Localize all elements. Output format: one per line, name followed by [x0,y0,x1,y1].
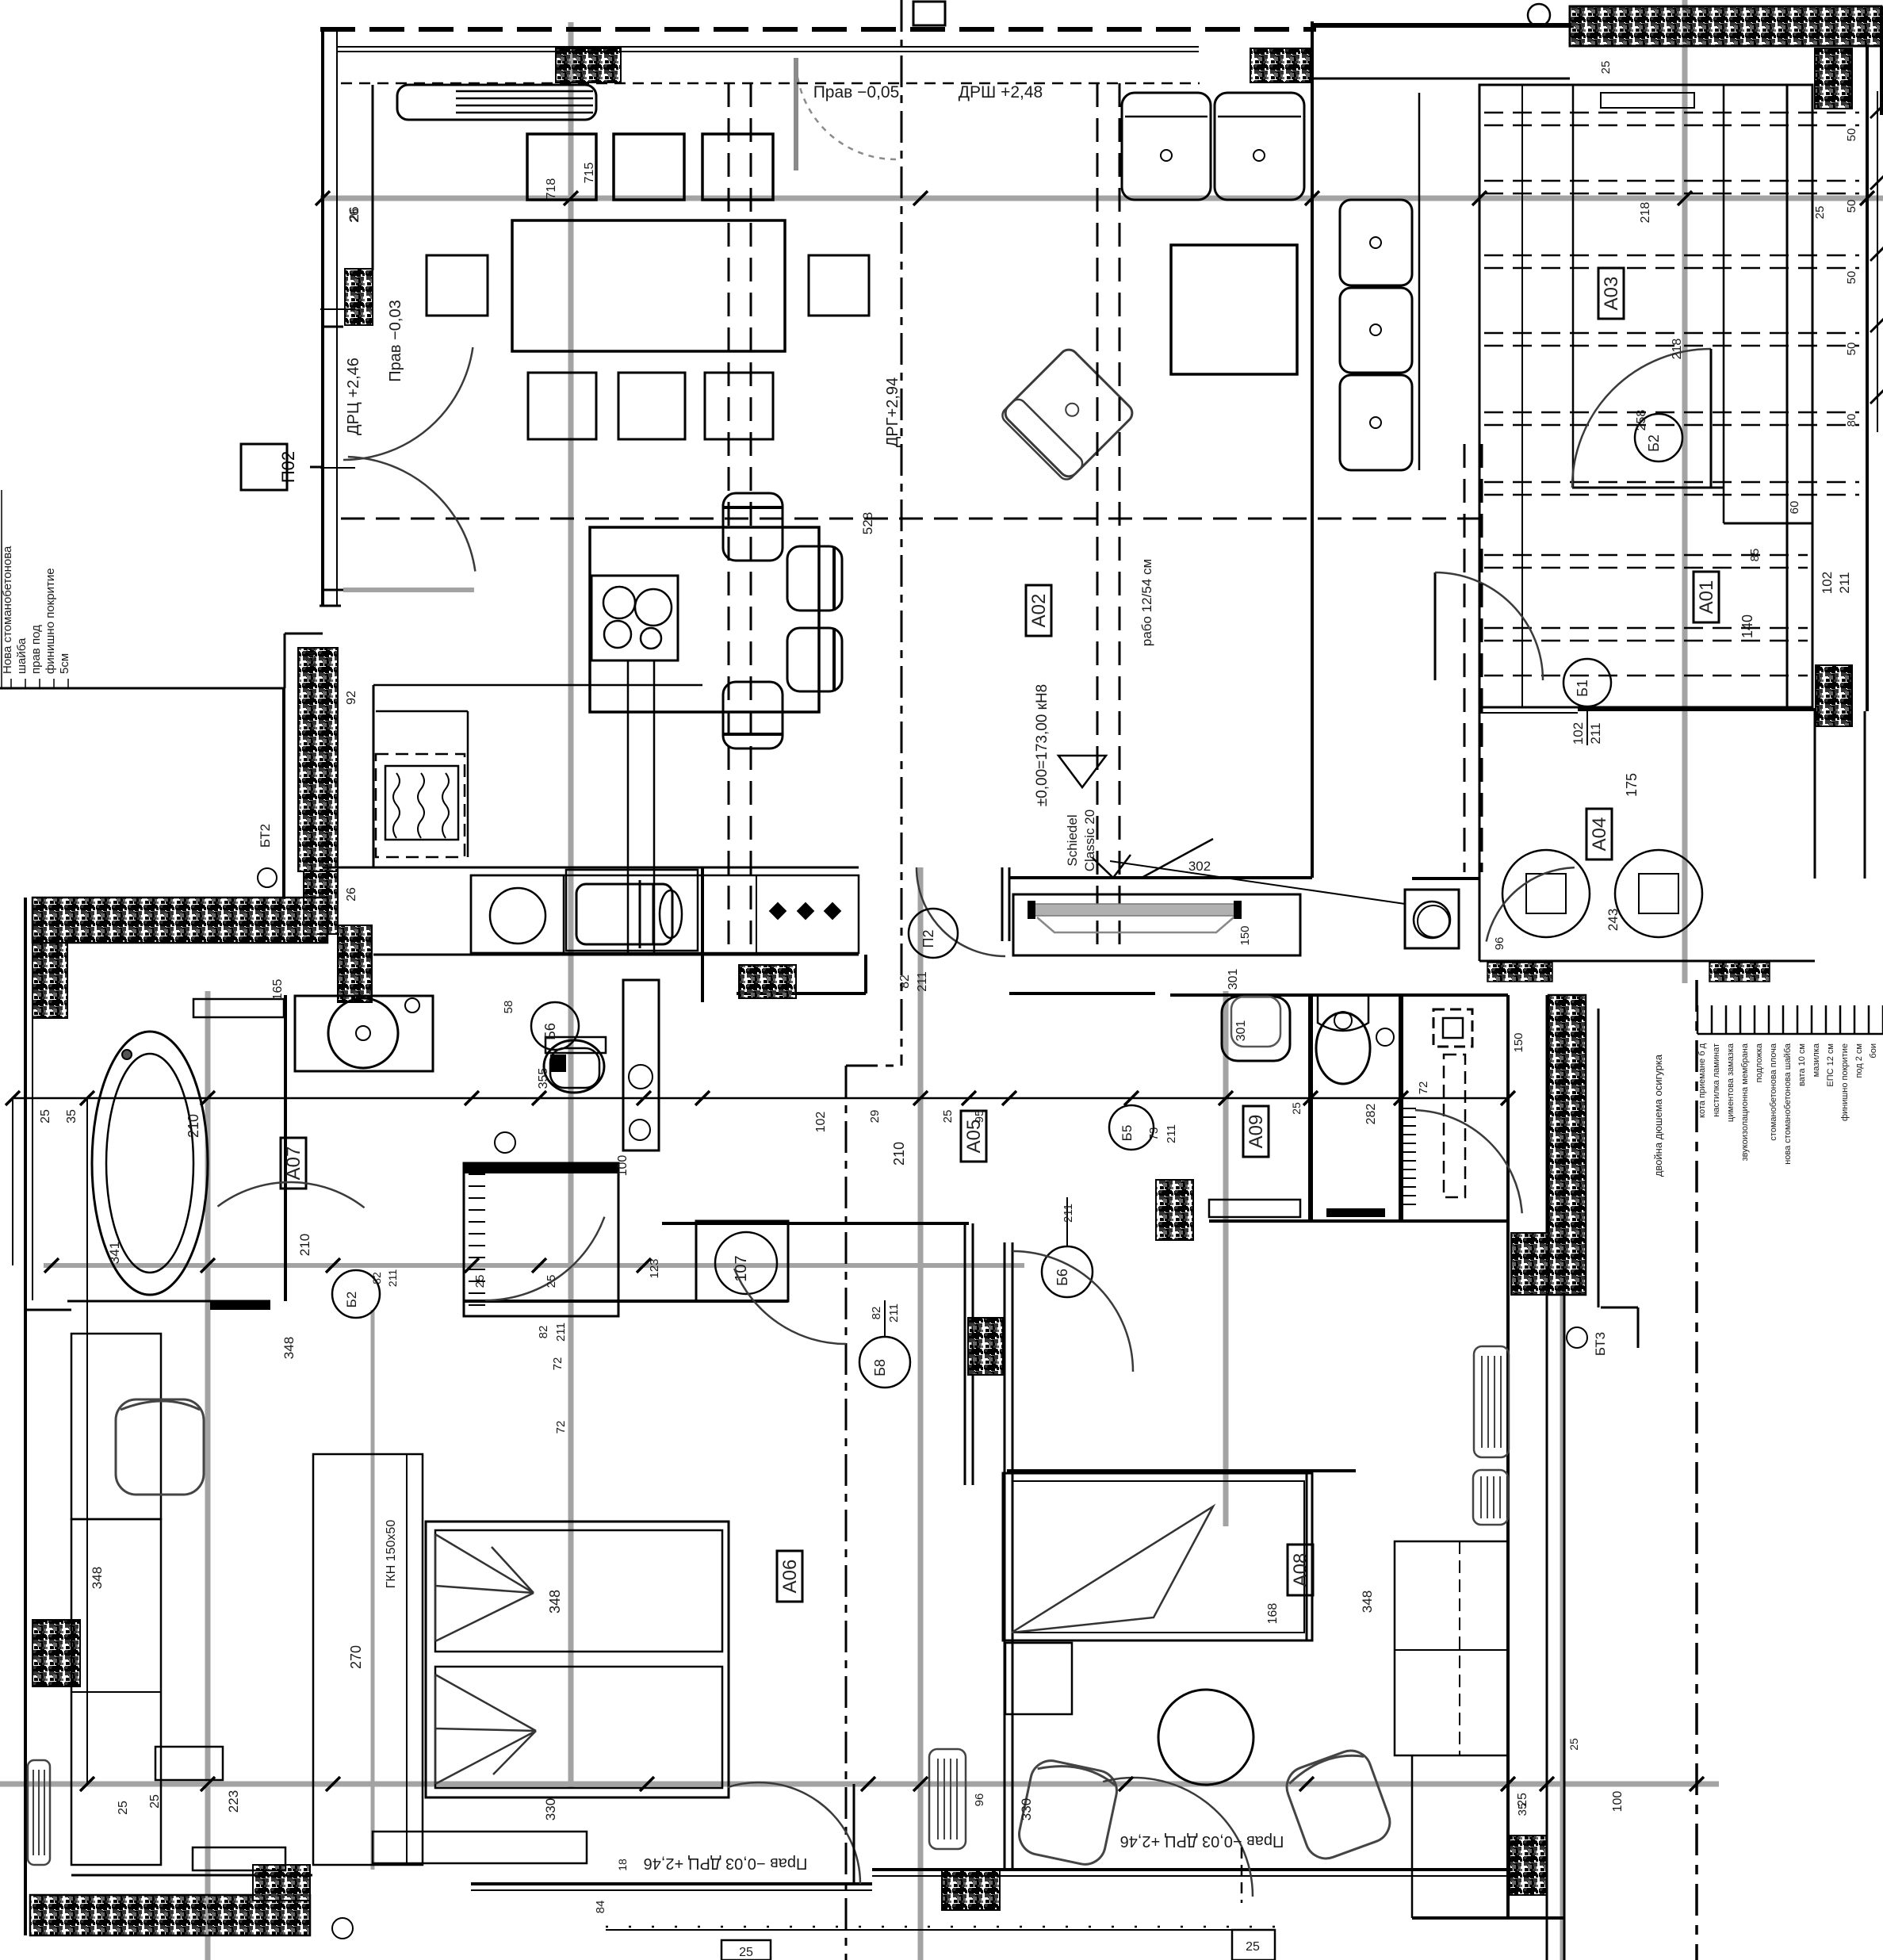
hatched shear wall BT2 lower [304,871,338,934]
closet niche wall top [1009,876,1312,879]
svg-text:финишно покритие: финишно покритие [1840,1043,1850,1121]
desk A06 [71,1334,161,1519]
laundry washer circle 1 [1502,850,1590,937]
dim tick y1385 n12 [1219,1091,1233,1105]
wall left outer bath inner [32,943,33,1300]
svg-text:A04: A04 [1589,817,1610,852]
sink unit outer [566,870,698,951]
nighttable A08 [1005,1643,1072,1714]
dining chair right [809,255,869,316]
svg-text:финишно покритие: финишно покритие [44,568,57,674]
section line right [1695,980,1698,1960]
wall bath II bottom y1540 [1209,1219,1508,1223]
bed A06 mattress 1 [435,1530,722,1652]
closet rail cap L [1028,901,1035,919]
legend ruler ticks [1697,1005,1699,1034]
dim tick y250 n7 [1860,191,1874,205]
grid axis vertical gray x1971 [1560,1001,1566,1960]
dim vert line left x110 [86,1098,88,1784]
fridge squiggle 2 [418,773,424,838]
wall kitchen-hall vert x886 [701,867,704,1002]
dimension chain line y1383 [13,1097,1508,1100]
dashed beam pair a2 [750,83,752,955]
dishwasher knob 2 [797,902,815,921]
dim ticks right vertical [1870,104,1883,118]
svg-text:165: 165 [271,979,285,1001]
circle B8 [859,1337,910,1388]
wall A05-A06 vert b [972,1223,974,1485]
svg-text:25: 25 [148,1794,162,1809]
door arc storage [1572,349,1711,488]
fridge dashed box [376,754,465,857]
bathtub inner oval [106,1054,193,1273]
storage wall y660 [1724,523,1812,525]
stool square 1 [527,134,596,200]
dim tick y250 n1 [316,191,330,205]
tall wardrobe bed side [313,1454,423,1865]
closet trapezoid [1037,917,1234,932]
svg-text:26: 26 [348,209,362,223]
bath sink circle [328,998,398,1068]
door arc A07 [218,1182,365,1208]
wall top outer right [1312,23,1574,28]
wall hall top y1253 seg1 [737,992,866,995]
circle B2 bed [332,1270,380,1318]
kitchen island table [590,527,819,712]
svg-text:218: 218 [1671,339,1684,360]
svg-text:72: 72 [554,1421,568,1434]
cooktop burner small 1 [604,621,631,648]
hatched laundry bottom a [1487,963,1552,982]
svg-text:355: 355 [537,1068,550,1089]
laundry washer circle 2 [1615,850,1702,937]
door leaf hall [1434,572,1437,680]
wall kitchen west outer [321,29,324,606]
hatched wall right band ext [1511,1233,1548,1295]
svg-text:кота приемане б д: кота приемане б д [1697,1043,1707,1118]
kitchen chair bottom back [723,733,783,736]
chair 2 A08 [1281,1745,1395,1864]
storage dashed shelf row4b [1484,345,1859,347]
storage dashed shelf row6a [1484,481,1859,484]
svg-text:рабо 12/54 см: рабо 12/54 см [1139,559,1154,646]
hatched wall top block a [556,48,621,82]
sink basin [576,884,672,944]
stool square 2 [614,134,684,200]
fridge squiggle 3 [442,773,449,838]
door A07 threshold bar [210,1301,270,1310]
fridge squiggle 1 [393,773,400,838]
circle B5 right [1109,1105,1154,1150]
dim tick y250 n5 [1472,191,1487,205]
counter divider [756,875,757,953]
wall right outer v2 [1880,6,1883,115]
shower door arc [485,1217,604,1300]
svg-text:718: 718 [545,178,558,200]
svg-text:Прав −0,03 ДРЦ +2,46: Прав −0,03 ДРЦ +2,46 [1120,1832,1284,1850]
wall step left a [320,605,341,607]
dashed beam pair b2 [1119,83,1121,955]
desk right wall [1395,1541,1508,1755]
svg-text:282: 282 [1364,1104,1378,1125]
storage dashed shelf row2b [1484,193,1859,195]
leader gray vertical x470 bed [371,1310,375,1870]
fridge corner line b [467,711,469,857]
tv cabinet hatch line4 [456,112,593,114]
svg-text:Нова стоманобетонова: Нова стоманобетонова [1,546,14,674]
svg-text:мазилка: мазилка [1812,1043,1821,1077]
dim tick y1385 n3 [201,1091,215,1105]
sofa seat 1 button [1161,150,1172,161]
svg-text:циментова замазка: циментова замазка [1726,1043,1736,1122]
svg-text:58: 58 [502,1001,515,1014]
svg-text:A09: A09 [1246,1115,1267,1149]
svg-text:A05: A05 [963,1120,985,1154]
svg-text:ЕПС 12 см: ЕПС 12 см [1826,1043,1835,1087]
svg-text:A03: A03 [1601,277,1622,311]
round table A08 [1158,1690,1253,1785]
door arc A07 leaf [290,1205,361,1303]
dim vert line right [1684,710,1686,983]
storage wall y615 [1572,487,1724,489]
svg-text:25: 25 [1599,61,1613,75]
dim tick y2250 n1 [80,1777,94,1791]
svg-text:211: 211 [1837,572,1852,593]
wall WC divider v x1767 [1399,995,1403,1221]
hatched wall hall right [1816,665,1852,726]
svg-text:стоманобетонова плоча: стоманобетонова плоча [1769,1043,1778,1141]
bench bed foot [373,1832,587,1863]
window top inner sill dashed [341,82,1200,85]
WC toilet tank [1318,997,1368,1031]
storage shelf rect [1601,93,1694,108]
towel ladder shower [469,1173,485,1175]
hall circle B1 [1563,659,1611,706]
svg-text:211: 211 [386,1269,399,1288]
dashed beam pair a1 [728,83,730,955]
dim tick y1596 n2 [201,1258,215,1273]
wall east jog b [1601,1307,1638,1309]
svg-text:Б2: Б2 [1646,434,1662,452]
section line top [901,0,903,1066]
chimney leader [1110,861,1405,904]
wall top right corner v [1311,21,1314,878]
kitchen counter top line [373,684,702,687]
cabinet circle 1 [629,1065,653,1089]
text terrace 1 [644,1855,808,1872]
svg-text:348: 348 [90,1567,105,1589]
storage vert shelf line1 [1521,85,1523,707]
storage dashed shelf row1b [1484,124,1859,127]
circle BT3 [1567,1327,1587,1348]
label A05 [961,1111,986,1162]
closet leader diag [1142,839,1213,878]
door leaf kitchen hall b [1008,867,1011,941]
wall kitchen counter edge [373,685,375,867]
grid axis vertical gray x2125 [1682,0,1688,983]
bed A06 triangle 1 [435,1534,534,1641]
label A01 [1694,572,1719,622]
svg-text:150: 150 [1238,925,1252,945]
coffee table [1171,245,1297,374]
wall kitchen west inner2 [372,85,374,270]
dim tick y2250 n7 [1119,1777,1133,1791]
grid axis vertical gray x720 [568,22,574,1789]
fridge inner box [385,766,458,840]
sofa seat 2 inner [1218,116,1301,118]
dashed kitchen divider y654 [341,518,1479,520]
svg-text:348: 348 [547,1590,563,1614]
kitchen chair right 1 [787,546,842,611]
svg-text:211: 211 [887,1303,901,1323]
circle marker bottom [332,1918,353,1939]
storage circle B mid [1635,414,1682,461]
door arc kitchen hall [917,867,1005,956]
wall hall east step2 [1864,711,1866,879]
svg-text:301: 301 [1234,1020,1248,1042]
wall A05-A06 vert a [964,1223,966,1485]
bed A08 triangle [1012,1506,1213,1633]
balcony door jamb b [323,589,343,591]
fridge corner line a [376,710,468,713]
door leaf storage [1710,349,1713,488]
dining chair bottom 3 [705,373,773,439]
hatched wall bath north [33,898,327,943]
svg-text:330: 330 [543,1798,558,1820]
svg-text:A07: A07 [283,1147,304,1181]
bath sink dot [356,1026,370,1040]
svg-text:140: 140 [1739,614,1755,638]
storage dashed shelf row6b [1484,494,1859,496]
towel ladder right [1401,1108,1416,1109]
wall lobby y1641 [464,1300,788,1303]
sofa R seat 3 button [1370,417,1381,428]
svg-text:Б6: Б6 [1054,1269,1070,1286]
chimney circle [1414,902,1450,938]
svg-text:25: 25 [1246,1940,1260,1954]
svg-text:96: 96 [973,1793,986,1807]
svg-text:100: 100 [616,1155,630,1177]
door leaf kitchen hall a [1001,867,1004,941]
toilet A07 seat [550,1048,599,1088]
svg-text:Classic 20: Classic 20 [1082,810,1097,871]
dim tick y2250 n3 [326,1777,340,1791]
svg-text:вата 10 см: вата 10 см [1797,1043,1807,1086]
svg-text:210: 210 [891,1142,907,1166]
hatched wall block kitchen sw [338,925,372,1002]
svg-text:звукоизолационна мембрана: звукоизолационна мембрана [1740,1043,1750,1161]
dim tick y1385 n9 [962,1091,976,1105]
svg-text:50: 50 [1845,271,1858,285]
toilet A07 black [550,1055,566,1072]
svg-text:82: 82 [898,974,912,989]
svg-text:210: 210 [186,1114,201,1138]
cabinet circle 2 [630,1120,650,1140]
dining chair left [427,255,488,316]
bath sink rect [295,996,433,1071]
svg-text:25: 25 [1290,1102,1303,1115]
dim tick y1385 n14 [1394,1091,1408,1105]
svg-text:A06: A06 [779,1560,801,1594]
svg-text:301: 301 [1227,969,1240,990]
storage dashed shelf row3b [1484,267,1859,270]
svg-text:211: 211 [916,971,929,992]
wall hall vert x1092 [864,955,867,993]
svg-text:Прав −0,05: Прав −0,05 [813,83,900,101]
dim tick y1385 n15 [1501,1091,1515,1105]
door arc A09 right [1415,1110,1522,1213]
circle BT2 marker [258,868,277,887]
dim line right vertical [1877,91,1878,432]
dashed beam pair b1 [1097,83,1099,955]
grid axis vertical gray x1546 [1223,991,1229,1526]
svg-text:270: 270 [348,1645,364,1669]
bathtub dot [122,1050,132,1059]
vert line bottom right thin [1411,1755,1414,1918]
svg-text:73: 73 [1147,1127,1161,1141]
svg-text:211: 211 [1062,1204,1075,1223]
svg-text:Прав −0,03: Прав −0,03 [387,300,404,381]
svg-text:25: 25 [39,1109,52,1124]
terrace bottom dashes [606,1926,1275,1928]
radiator A06 left [28,1760,50,1865]
kitchen chair right 2 back [832,628,836,691]
circle B8 leader [884,1300,886,1337]
radiator A06 right [929,1749,966,1849]
svg-text:102: 102 [814,1112,828,1133]
wall A05 floor y1543 [662,1222,969,1225]
section line bottom [845,1066,848,1960]
legend left leader 4 [53,679,55,688]
sofa R seat 3 [1340,375,1412,470]
dim tick y1385 n6 [637,1091,651,1105]
wall kitchen west inner [336,29,338,606]
svg-text:102: 102 [1820,572,1835,594]
dim tick y1385 n2 [80,1091,94,1105]
dishwasher knob 3 [824,902,842,921]
dim tick y2250 n10 [1540,1777,1554,1791]
bath shelf rect [193,999,284,1017]
svg-text:A01: A01 [1696,580,1717,614]
tv cabinet hatch line3 [456,105,593,107]
armchair rotated 45 [999,346,1136,483]
cooktop burner big 2 [635,589,672,626]
svg-text:5см: 5см [58,653,71,674]
svg-text:528: 528 [860,512,875,534]
hatched wall bottom block2 [253,1865,310,1901]
dashed beam hall c1 [1464,444,1466,872]
cooktop square [591,576,678,660]
radiator A09 top [1474,1346,1509,1457]
storage A03 outer wall [1479,85,1812,707]
wall right terrace v b [1563,995,1566,1960]
door arc A06 entry [734,1269,846,1344]
svg-text:ДРЦ +2,46: ДРЦ +2,46 [345,358,362,435]
dining chair bottom 2 [618,373,685,439]
door arc balcony lower [348,457,476,572]
svg-text:223: 223 [226,1790,241,1813]
sofa seat 1 [1122,93,1211,200]
desk chair A06 [116,1399,204,1495]
hatched wall top right block [1815,48,1852,109]
svg-text:82: 82 [370,1272,383,1284]
svg-text:настилка ламинат: настилка ламинат [1712,1043,1721,1117]
svg-text:Б6: Б6 [542,1023,558,1040]
svg-text:243: 243 [1606,909,1621,931]
bed A06 outer [426,1522,729,1797]
terrace door arc 1 [727,1782,860,1884]
dim tick y2250 n2 [201,1777,215,1791]
WC toilet btn [1334,1012,1352,1029]
svg-text:218: 218 [1639,202,1652,224]
svg-text:ГКН 150х50: ГКН 150х50 [385,1520,398,1589]
storage dashed shelf row low3 [1484,675,1808,677]
wall bottom y2358 [872,1868,1508,1871]
svg-text:нова стоманобетонова шайба: нова стоманобетонова шайба [1783,1043,1793,1165]
terrace tick box 2 [1232,1930,1275,1960]
bed A08 inner [1012,1481,1304,1633]
balcony door jamb a [323,326,343,328]
terrace door leaf 1 [853,1784,855,1884]
dashed beam hall c2 [1481,444,1483,872]
hatched wall bottom right [1510,1836,1547,1895]
door arc A04 [1487,867,1575,941]
svg-text:25: 25 [1813,206,1827,220]
svg-text:бои: бои [1869,1043,1878,1058]
svg-text:шайба: шайба [15,637,29,674]
grid marker box top [913,2,945,25]
storage east wall x1866 [1479,707,1481,961]
svg-text:348: 348 [1360,1591,1375,1613]
washing machine sq [471,875,564,953]
svg-text:100: 100 [1611,1791,1625,1813]
svg-text:ДРШ +2,48: ДРШ +2,48 [959,83,1043,101]
radiator right wall [1473,1470,1508,1525]
svg-text:Б8: Б8 [872,1359,888,1376]
desk chair A08 [1016,1757,1121,1868]
bathtub outer oval [92,1032,208,1295]
svg-text:25: 25 [739,1946,753,1959]
gray door sill living [343,588,474,592]
sink faucet ellipse [660,890,682,938]
wall A08 west vert a [1004,1242,1006,1870]
hatched laundry bottom b [1709,963,1770,982]
label A08 [1288,1545,1313,1595]
storage dashed shelf row2a [1484,180,1859,182]
svg-text:26: 26 [345,887,358,902]
kitchen chair right 1 back [832,546,836,611]
wall hall east step [1814,710,1816,879]
hall wall y899 [1479,712,1578,714]
wall step left b [285,633,323,635]
svg-text:25: 25 [941,1110,955,1124]
svg-text:82: 82 [870,1307,883,1320]
door P02 leader [310,466,323,469]
dim tick y1385 n5 [532,1091,546,1105]
svg-text:29: 29 [868,1110,882,1124]
svg-text:715: 715 [583,163,596,184]
cabinet tall bath [623,980,659,1150]
circle marker left A04 [1418,905,1449,937]
svg-text:П02: П02 [278,451,298,483]
dim tick y1596 n6 [637,1258,651,1273]
sofa seat 1 inner [1125,116,1207,118]
svg-text:25: 25 [545,1275,558,1288]
dim tick y2250 n5 [861,1777,875,1791]
storage dashed shelf row3a [1484,255,1859,257]
wall right terrace v a [1546,995,1548,1960]
tall wardrobe inner2 [422,1454,423,1865]
